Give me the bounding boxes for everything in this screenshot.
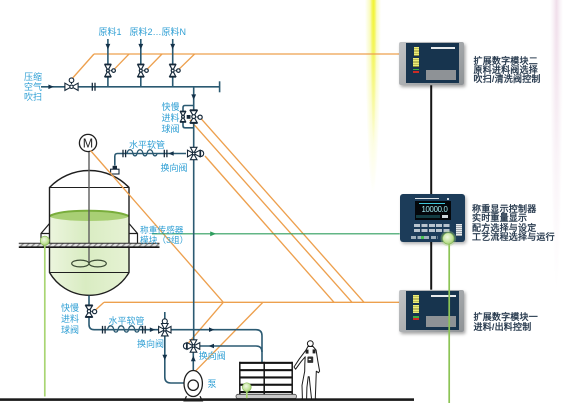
svg-text:M: M (83, 137, 93, 151)
